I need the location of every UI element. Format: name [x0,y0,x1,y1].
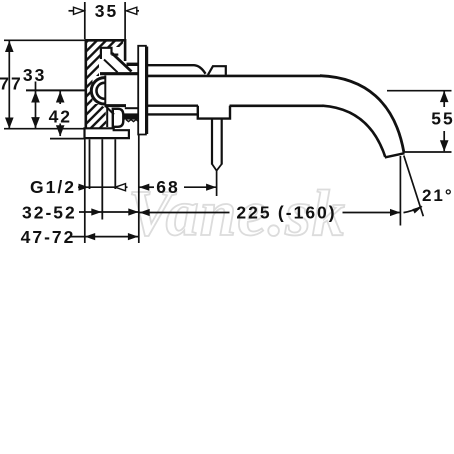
arrow 77 up [5,41,14,52]
dim 68 ext (plate) [138,135,140,243]
body bore bottom [105,104,127,107]
svg-text:42: 42 [49,107,72,127]
svg-text:21°: 21° [422,186,454,205]
svg-text:55: 55 [431,109,454,129]
drop tube right [221,119,223,165]
body bottom line right part [125,107,139,109]
arrow 35 left (open) [74,7,85,14]
arrow 33 down [31,117,40,128]
arrow 77 down [5,118,14,129]
arrow 47-72 left [85,233,95,240]
thread band top [127,63,139,66]
dim 42 line lower [59,124,61,137]
spout outer curve [320,76,404,153]
spray angle line 21deg [404,156,424,217]
spout inner curve [323,106,386,157]
dim 47-72 ext left [84,139,86,243]
dim 47-72 line [70,236,138,238]
drop tube taper [212,164,222,171]
bottom cone diagonal [105,106,114,115]
dim G1/2 line [78,186,115,188]
wall left edge [85,39,88,129]
dim 35 line right [127,10,140,12]
dim 55 line lower [443,131,445,151]
cone diagonal thin [104,60,118,73]
dim 32-52 line [79,211,139,213]
spout collar bottom line [148,113,198,115]
spout tip vertical ext [399,156,401,226]
spout top line [148,75,321,78]
arrow 32-52 left [91,208,101,215]
arrowheads [5,7,449,240]
arrow angle arc [412,206,422,213]
svg-text:35: 35 [95,1,118,21]
arrow 33 up [31,91,40,102]
cartridge dome outer [91,78,104,104]
dim G1/2 tail right [115,186,128,188]
body top band [100,72,138,75]
dim 55 ext top [387,90,452,92]
dim 225 line right [343,212,401,214]
spout bottom line right [230,105,324,108]
dim 33 line [35,82,37,129]
arrow 47-72 right [128,233,138,240]
supply pipe left edge [89,139,91,189]
dim 42 ext bottom [50,138,85,140]
dim 77 ext top [4,39,85,41]
svg-text:77: 77 [0,74,23,94]
outlet boss under spout [198,106,230,119]
bottom slot left edge [106,108,108,128]
body cap outline [101,47,118,59]
spout bottom line left [148,104,198,106]
drop tube left [211,119,213,165]
svg-text:G1/2: G1/2 [30,177,76,197]
retaining nut D-shape [113,109,124,127]
dim 42 line upper [59,91,61,104]
dim 77 line [8,41,10,129]
watermark Vane.sk [128,176,454,252]
dim 77 ext bottom [4,128,84,130]
dim 55 line upper [443,91,445,107]
dim 68 line right [184,186,216,188]
arrow 225 left [139,209,149,216]
dimension graphics [4,2,452,243]
plate right shadow edge [146,47,149,135]
wall right edge [124,39,127,61]
dim 68 ext (tube tip) [216,170,218,197]
spout tip face [385,153,405,157]
cone diagonal thick [112,53,132,71]
svg-text:47-72: 47-72 [21,227,76,247]
dim 35 ext right [124,2,126,39]
svg-text:33: 33 [23,65,46,85]
arrow 68 right [206,184,216,191]
body bore left edge [104,76,106,106]
supply pipe center line [101,139,103,219]
set screw boss on spout [208,66,226,75]
cartridge dome inner [97,83,105,99]
angle arc [404,206,422,212]
wall hatch region upper [87,41,124,104]
arrow 35 right (open) [126,7,137,14]
dim 35 line left [69,10,85,12]
supply pipe right edge [114,139,116,189]
dim 225 line left [139,212,229,214]
dim 55 ext bottom [404,151,452,153]
arrow G1/2 left [79,184,89,191]
escutcheon plate [138,46,146,135]
arrow 55 up [440,91,449,102]
wall top line [85,39,126,42]
dim 35 ext left [84,2,86,39]
arrow 225 right [390,209,400,216]
arrow 42 down [56,125,65,136]
arrow G1/2 right (open) [115,184,125,191]
thread teeth bottom [126,120,141,122]
spout collar top line [148,65,206,74]
wall hatch region lower [87,104,107,128]
threaded bar to plate [124,113,138,119]
svg-text:225 (-160): 225 (-160) [236,202,336,222]
svg-text:68: 68 [156,177,179,197]
arrow 68 left [139,184,149,191]
flange outline [85,128,129,138]
arrow 32-52 right [128,208,138,215]
svg-text:32-52: 32-52 [22,203,77,223]
centerline ext [26,89,86,91]
arrow 42 up [56,91,65,102]
dim 68 line left [139,186,154,188]
arrow 55 down [440,140,449,151]
